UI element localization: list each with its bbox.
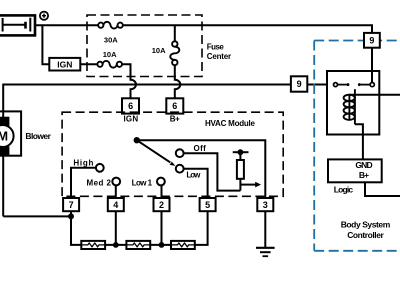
wire R2 to R3	[150, 244, 171, 246]
svg-text:Center: Center	[207, 52, 231, 61]
connector 6 IGN	[122, 98, 139, 113]
main horizontal feed wire (motor to connector 9)	[3, 85, 291, 112]
svg-text:Low 1: Low 1	[132, 179, 153, 188]
wire R3 to pin 5	[195, 211, 208, 245]
wire Med 2 to pin 4	[115, 185, 117, 198]
svg-text:4: 4	[113, 200, 118, 210]
fuse F2 10A (IGN)	[97, 61, 122, 68]
resistor R4 (vertical)	[237, 152, 244, 190]
resistor R3	[171, 241, 195, 249]
svg-text:2: 2	[159, 200, 164, 210]
svg-text:7: 7	[69, 200, 74, 210]
svg-text:Low: Low	[186, 170, 201, 179]
wire pin 7 to resistor chain	[71, 211, 81, 245]
svg-text:30A: 30A	[104, 35, 118, 44]
svg-text:IGN: IGN	[57, 59, 72, 69]
wire controller output to right edge	[365, 182, 400, 196]
junction dot at pin 7	[68, 213, 74, 219]
contact Low 1	[157, 178, 165, 186]
controller GND B+ box	[328, 159, 382, 182]
connector 9 (top)	[364, 33, 380, 48]
wire connector 9 to relay contact	[307, 84, 333, 86]
svg-text:Blower: Blower	[25, 131, 51, 141]
connector 6 B+	[166, 98, 183, 113]
wire F2 to connector 6 IGN with hop	[122, 64, 136, 98]
thermal limiter dot	[238, 149, 244, 155]
wire drop to IGN switch	[42, 25, 49, 64]
fuse F1 30A	[98, 22, 123, 29]
thermal limiter bar	[233, 151, 249, 153]
relay coil	[344, 89, 355, 124]
svg-text:Off: Off	[194, 144, 207, 153]
svg-text:5: 5	[205, 200, 210, 210]
pin 5	[200, 198, 216, 211]
svg-text:IGN: IGN	[124, 114, 139, 123]
contact Off	[176, 149, 184, 157]
svg-text:GND: GND	[355, 160, 372, 170]
body system controller blue dashed box	[314, 41, 400, 251]
wire switch common to pin 3	[137, 140, 265, 198]
svg-text:Med 2: Med 2	[87, 178, 112, 187]
wire coil to right edge	[349, 94, 400, 96]
svg-text:3: 3	[263, 200, 268, 210]
wire Low 1 to pin 2	[161, 185, 163, 198]
svg-text:High: High	[73, 159, 93, 168]
blower motor M1	[0, 111, 21, 216]
battery B+	[0, 15, 35, 35]
fuse F3 10A (vertical)	[170, 25, 179, 65]
svg-text:Body System: Body System	[341, 220, 391, 230]
connector 9 (feed)	[291, 76, 307, 91]
svg-text:B+: B+	[359, 170, 369, 180]
wire Off to resistor bottom	[184, 153, 241, 190]
IGN switch box	[49, 58, 80, 71]
main top wire to connector 9	[123, 25, 372, 33]
wire pin 2 to tap	[161, 211, 163, 245]
HVAC module dashed box	[62, 112, 283, 196]
junction dot pin 2 tap	[159, 242, 165, 248]
svg-text:HVAC Module: HVAC Module	[205, 119, 256, 128]
wire R1 to R2	[105, 244, 126, 246]
ground	[256, 248, 275, 256]
contact High	[96, 164, 104, 172]
wire Low to pin 5	[184, 169, 208, 198]
wire battery to 30A fuse	[35, 24, 98, 26]
wire F3 to connector 6 B+ with hop	[175, 65, 181, 98]
svg-text:M: M	[0, 129, 8, 144]
resistor R1	[81, 241, 105, 249]
wire High to pin 7	[71, 168, 96, 198]
pin 7	[63, 198, 79, 211]
svg-text:Controller: Controller	[347, 230, 384, 240]
svg-text:9: 9	[297, 79, 302, 89]
junction dot pin 4 tap	[113, 242, 119, 248]
contact Low (switch)	[176, 165, 184, 173]
wire pin 3 to ground	[264, 211, 266, 247]
svg-text:6: 6	[128, 101, 133, 111]
wire coil to controller	[355, 124, 363, 159]
positive terminal symbol	[40, 12, 48, 20]
svg-text:10A: 10A	[103, 50, 117, 59]
pin 3	[257, 198, 273, 211]
pin 2	[154, 198, 170, 211]
switch pivot and blade	[134, 137, 176, 166]
wire motor to pin 7 junction	[3, 215, 71, 217]
pin 4	[108, 198, 124, 211]
arrow out of resistor	[240, 182, 261, 188]
svg-text:B+: B+	[170, 114, 180, 123]
contact Med 2	[112, 178, 120, 186]
resistor R2	[126, 241, 150, 249]
relay contact	[334, 48, 375, 87]
svg-text:9: 9	[369, 36, 374, 46]
svg-text:Logic: Logic	[334, 185, 354, 195]
relay K1 box	[327, 71, 379, 135]
svg-text:Fuse: Fuse	[207, 42, 225, 51]
wire IGN to 10A fuse	[80, 63, 97, 65]
svg-text:6: 6	[172, 101, 177, 111]
svg-text:10A: 10A	[152, 46, 166, 55]
fuse center dashed box	[87, 15, 202, 77]
wire pin 4 to tap	[115, 211, 117, 245]
